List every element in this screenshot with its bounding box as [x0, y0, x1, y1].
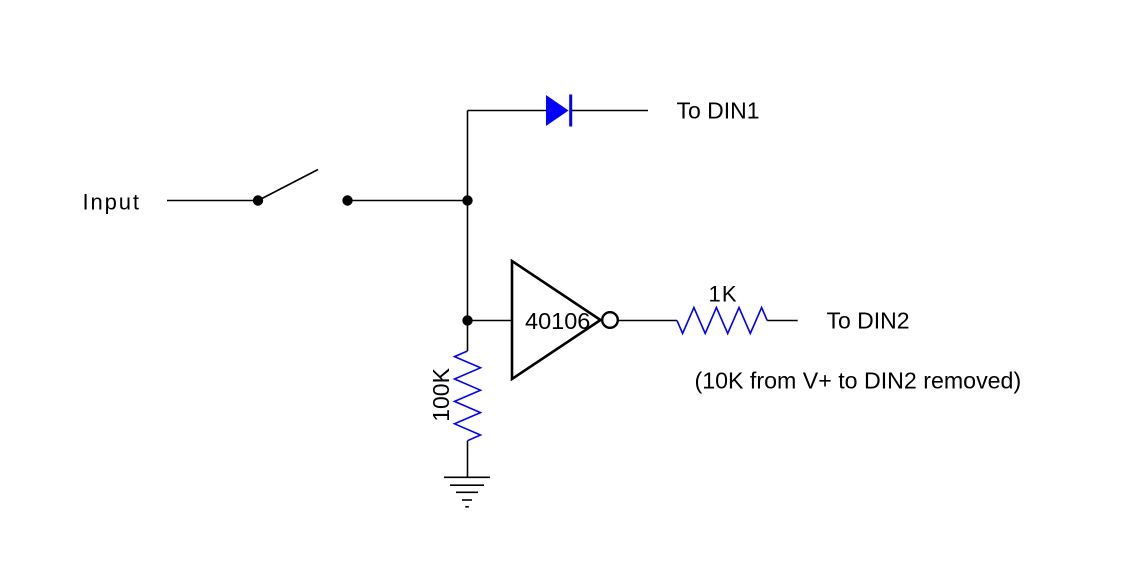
wire [468, 320, 513, 322]
switch SW1 [253, 170, 353, 206]
wire [767, 320, 798, 322]
wire [468, 110, 547, 112]
svg-text:1K: 1K [709, 282, 738, 307]
svg-text:40106: 40106 [525, 308, 590, 334]
svg-text:To DIN2: To DIN2 [827, 308, 910, 334]
resistor R2 100K [455, 351, 481, 441]
svg-text:100K: 100K [428, 367, 454, 421]
resistor R1 1K [677, 308, 767, 334]
ground [444, 477, 490, 507]
svg-text:Input: Input [83, 190, 141, 215]
inverter U1 [512, 261, 618, 379]
wire [618, 320, 677, 322]
svg-text:To DIN1: To DIN1 [677, 98, 760, 124]
wire [467, 441, 469, 477]
junction [462, 315, 472, 325]
svg-text:(10K from V+ to DIN2 removed): (10K from V+ to DIN2 removed) [695, 368, 1022, 394]
wire [467, 111, 469, 352]
wire [167, 200, 253, 202]
wire [572, 110, 648, 112]
junction [462, 195, 472, 205]
wire [348, 200, 468, 202]
diode D1 [546, 95, 571, 127]
